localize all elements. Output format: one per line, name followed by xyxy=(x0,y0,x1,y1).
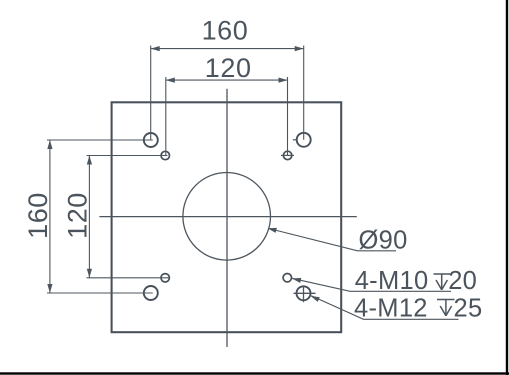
arrowhead 120 left bottom xyxy=(87,269,92,278)
extension line top 120 left xyxy=(165,77,167,156)
extension line left 160 bottom xyxy=(47,292,153,294)
hole M12 top-right xyxy=(297,133,311,147)
arrowhead 120 top left xyxy=(166,78,175,83)
hole M12 bottom-left xyxy=(144,286,158,300)
svg-text:Ø90: Ø90 xyxy=(359,226,408,254)
hole M10 bottom-left xyxy=(161,274,169,282)
svg-text:160: 160 xyxy=(23,192,53,239)
extension line top 160 left xyxy=(150,46,152,141)
arrowhead 160 top right xyxy=(295,46,304,51)
dimension line 120 left xyxy=(88,156,90,278)
extension line left 160 top xyxy=(47,139,153,141)
vertical centerline xyxy=(226,89,228,347)
arrowhead 160 left top xyxy=(47,140,52,149)
hole M10 top-left xyxy=(161,151,169,159)
depth symbol line2 xyxy=(437,300,455,317)
center cross M12 bottom-right xyxy=(294,292,316,294)
depth symbol line1 xyxy=(434,274,451,290)
leader arrow M12 xyxy=(311,296,320,302)
arrowhead 160 top left xyxy=(151,46,160,51)
leader line D90 xyxy=(269,229,396,251)
hole M10 bottom-right xyxy=(283,274,291,282)
horizontal centerline xyxy=(99,216,356,218)
center-mark M10 top-right xyxy=(281,154,294,156)
dimension line 160 top xyxy=(151,48,304,50)
arrowhead 160 left bottom xyxy=(47,284,52,293)
border bottom xyxy=(0,372,509,374)
extension line top 160 right xyxy=(303,46,305,140)
svg-text:25: 25 xyxy=(454,294,483,322)
arrowhead 120 top right xyxy=(279,78,288,83)
svg-text:20: 20 xyxy=(448,267,477,295)
plate outline xyxy=(112,102,342,332)
center-mark stub M12 top-right xyxy=(293,139,297,141)
leader line M12 xyxy=(311,296,458,320)
svg-text:160: 160 xyxy=(202,16,249,46)
arrowhead 120 left top xyxy=(87,156,92,165)
leader line M10 xyxy=(292,278,451,291)
hole M12 top-left xyxy=(144,133,158,147)
border right xyxy=(506,0,508,375)
svg-text:4-M12: 4-M12 xyxy=(354,294,428,322)
svg-text:4-M10: 4-M10 xyxy=(355,267,429,295)
dimension line 120 top xyxy=(166,79,288,81)
hole M12 bottom-right xyxy=(297,286,311,300)
dimension line 160 left xyxy=(49,140,51,293)
extension line top 120 right xyxy=(287,77,289,155)
center circle D90 xyxy=(183,173,271,261)
svg-text:120: 120 xyxy=(205,53,252,83)
hole M10 top-right xyxy=(283,151,291,159)
extension line left 120 top xyxy=(87,155,168,157)
svg-text:120: 120 xyxy=(63,192,93,239)
extension line left 120 bottom xyxy=(87,277,171,279)
leader arrow D90 xyxy=(268,228,277,233)
leader arrow M10 xyxy=(292,278,301,283)
